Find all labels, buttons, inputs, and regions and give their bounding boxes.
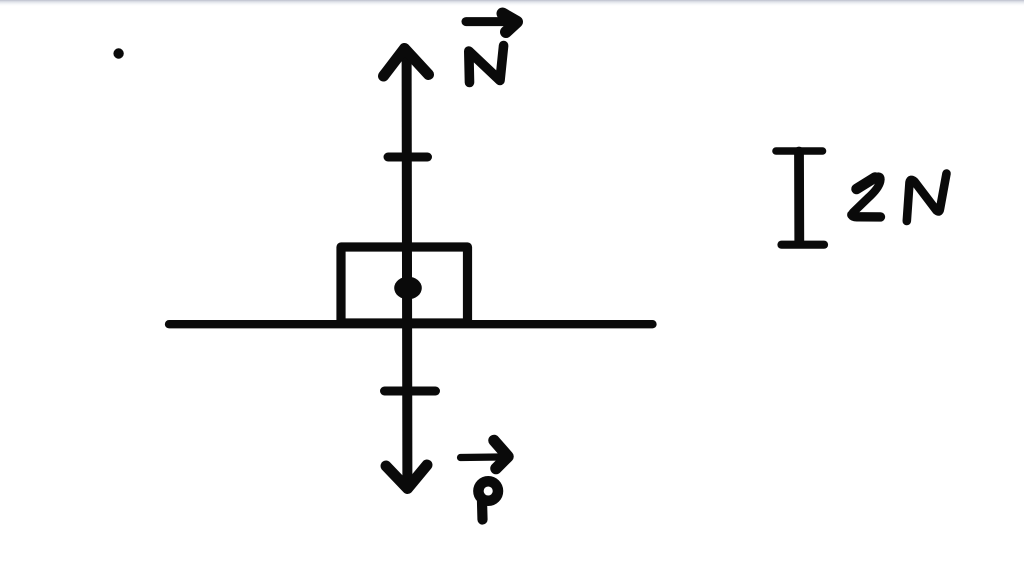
label N letter <box>469 46 504 83</box>
center dot of box <box>394 277 422 300</box>
wire vertical force line <box>402 53 413 485</box>
arrowhead P down <box>386 465 427 489</box>
scale bar vertical <box>794 152 804 244</box>
label N vector arrow <box>466 17 505 26</box>
label 2 of 2N <box>857 178 876 190</box>
ground line <box>169 320 653 328</box>
box bottom edge <box>338 318 470 327</box>
label P letter stem <box>477 501 488 520</box>
label P letter bowl <box>478 481 498 501</box>
stray dot <box>113 48 123 58</box>
arrowhead N up <box>384 49 429 77</box>
tick upper <box>388 153 428 162</box>
scale bar top <box>776 147 823 155</box>
scale bar bottom <box>782 241 825 249</box>
label P vector arrow <box>461 453 500 461</box>
box on surface <box>341 247 468 321</box>
tick lower <box>385 387 436 396</box>
top gradient bar <box>0 0 1024 6</box>
label N of 2N <box>907 174 947 222</box>
